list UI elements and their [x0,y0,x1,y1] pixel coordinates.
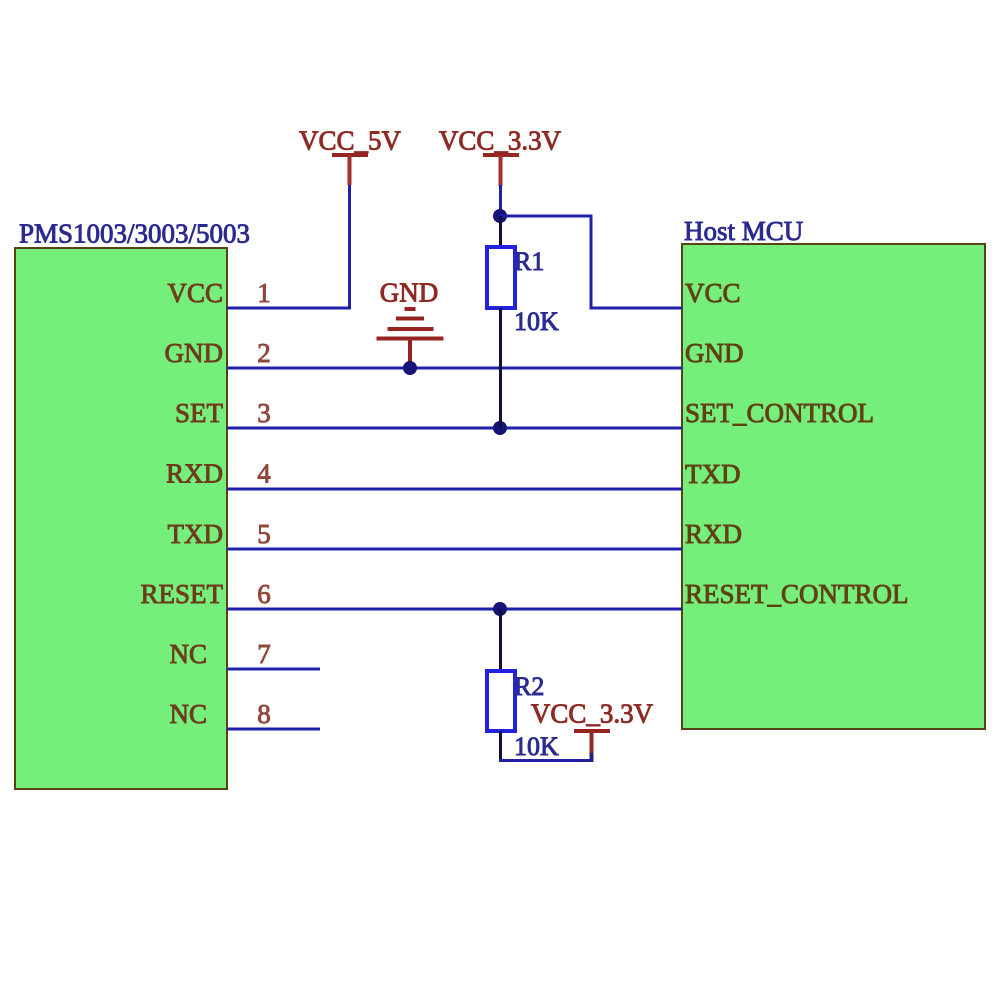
pin number 8 [257,699,271,729]
svg-text:GND: GND [165,338,224,368]
label R1 [514,247,544,276]
host pin label RESET_CONTROL [685,579,909,609]
host pin label RXD [685,519,742,549]
svg-text:NC: NC [169,699,207,729]
svg-text:5: 5 [257,519,271,549]
pin label NC (U1 pin 8) [169,699,207,729]
wire net RESET row [227,608,682,611]
value 10K (R1) [514,307,559,336]
svg-text:3: 3 [257,398,271,428]
host pin label GND [685,338,744,368]
resistor R2 [487,671,515,731]
wire net TXD row [227,548,682,551]
pin number 3 [257,398,271,428]
junction node VCC_3.3V / R1 top [493,209,507,223]
host pin label TXD [685,459,741,489]
power symbol VCC_3.3V (bottom) [531,699,654,763]
pin label VCC (U1 pin 1) [167,278,223,308]
pin label RXD (U1 pin 4) [166,459,223,489]
part U1 PMS1003/3003/5003 box [15,248,227,789]
svg-text:RESET: RESET [140,579,223,609]
wire VCC_3.3V junction to Host VCC [500,216,682,308]
wire R1 bottom to SET junction [499,308,502,428]
wire RESET junction to R2 top [499,609,502,672]
wire R2 bottom to VCC_3.3V [499,759,592,762]
svg-text:TXD: TXD [168,519,224,549]
wire U1 pin8 stub [227,728,320,731]
junction GND net [403,361,417,375]
svg-text:VCC_3.3V: VCC_3.3V [439,126,562,156]
pin number 1 [257,278,271,308]
svg-text:TXD: TXD [685,459,741,489]
svg-text:2: 2 [257,338,271,368]
svg-text:RESET_CONTROL: RESET_CONTROL [685,579,909,609]
part U1 title PMS1003/3003/5003 [19,219,250,249]
host pin label VCC [685,278,741,308]
svg-text:RXD: RXD [166,459,223,489]
svg-text:4: 4 [257,459,271,489]
pin number 5 [257,519,271,549]
pin number 6 [257,579,271,609]
resistor R1 [487,247,515,308]
wire VCC_3.3V stem to junction [499,185,502,216]
svg-text:SET: SET [175,398,224,428]
wire VCC_5V vertical drop [348,183,351,310]
wire U1 pin7 stub [227,668,320,671]
pin number 4 [257,459,271,489]
pin label NC (U1 pin 7) [169,639,207,669]
svg-text:1: 1 [257,278,271,308]
svg-text:VCC: VCC [167,278,223,308]
host pin label SET_CONTROL [685,398,874,428]
power symbol VCC_3.3V (top) [439,126,562,187]
svg-text:RXD: RXD [685,519,742,549]
part U2 title Host MCU [684,216,803,246]
svg-text:6: 6 [257,579,271,609]
svg-text:10K: 10K [514,732,559,761]
value 10K (R2) [514,732,559,761]
svg-text:PMS1003/3003/5003: PMS1003/3003/5003 [19,219,250,249]
svg-text:VCC: VCC [685,278,741,308]
wire junction to R1 top [499,216,502,249]
svg-text:10K: 10K [514,307,559,336]
power symbol VCC_5V [299,126,402,186]
wire U1 pin1 to VCC_5V [227,307,351,310]
pin label RESET (U1 pin 6) [140,579,223,609]
svg-text:NC: NC [169,639,207,669]
ground symbol GND [377,278,444,365]
pin label GND (U1 pin 2) [165,338,224,368]
svg-text:SET_CONTROL: SET_CONTROL [685,398,874,428]
wire net SET row [227,427,682,430]
svg-text:VCC_5V: VCC_5V [299,126,402,156]
junction SET / R1 [493,421,507,435]
svg-text:8: 8 [257,699,271,729]
svg-text:GND: GND [685,338,744,368]
svg-text:R1: R1 [514,247,544,276]
wire R2 bottom leg [499,731,502,762]
svg-text:R2: R2 [514,672,544,701]
wire net GND row [227,367,682,370]
svg-text:Host MCU: Host MCU [684,216,803,246]
pin number 7 [257,639,271,669]
junction RESET / R2 [493,602,507,616]
part U2 Host MCU box [682,244,985,729]
pin label TXD (U1 pin 5) [168,519,224,549]
svg-text:GND: GND [380,278,439,308]
svg-text:VCC_3.3V: VCC_3.3V [531,699,654,729]
label R2 [514,672,544,701]
svg-text:7: 7 [257,639,271,669]
pin number 2 [257,338,271,368]
pin label SET (U1 pin 3) [175,398,224,428]
wire net RXD row [227,488,682,491]
